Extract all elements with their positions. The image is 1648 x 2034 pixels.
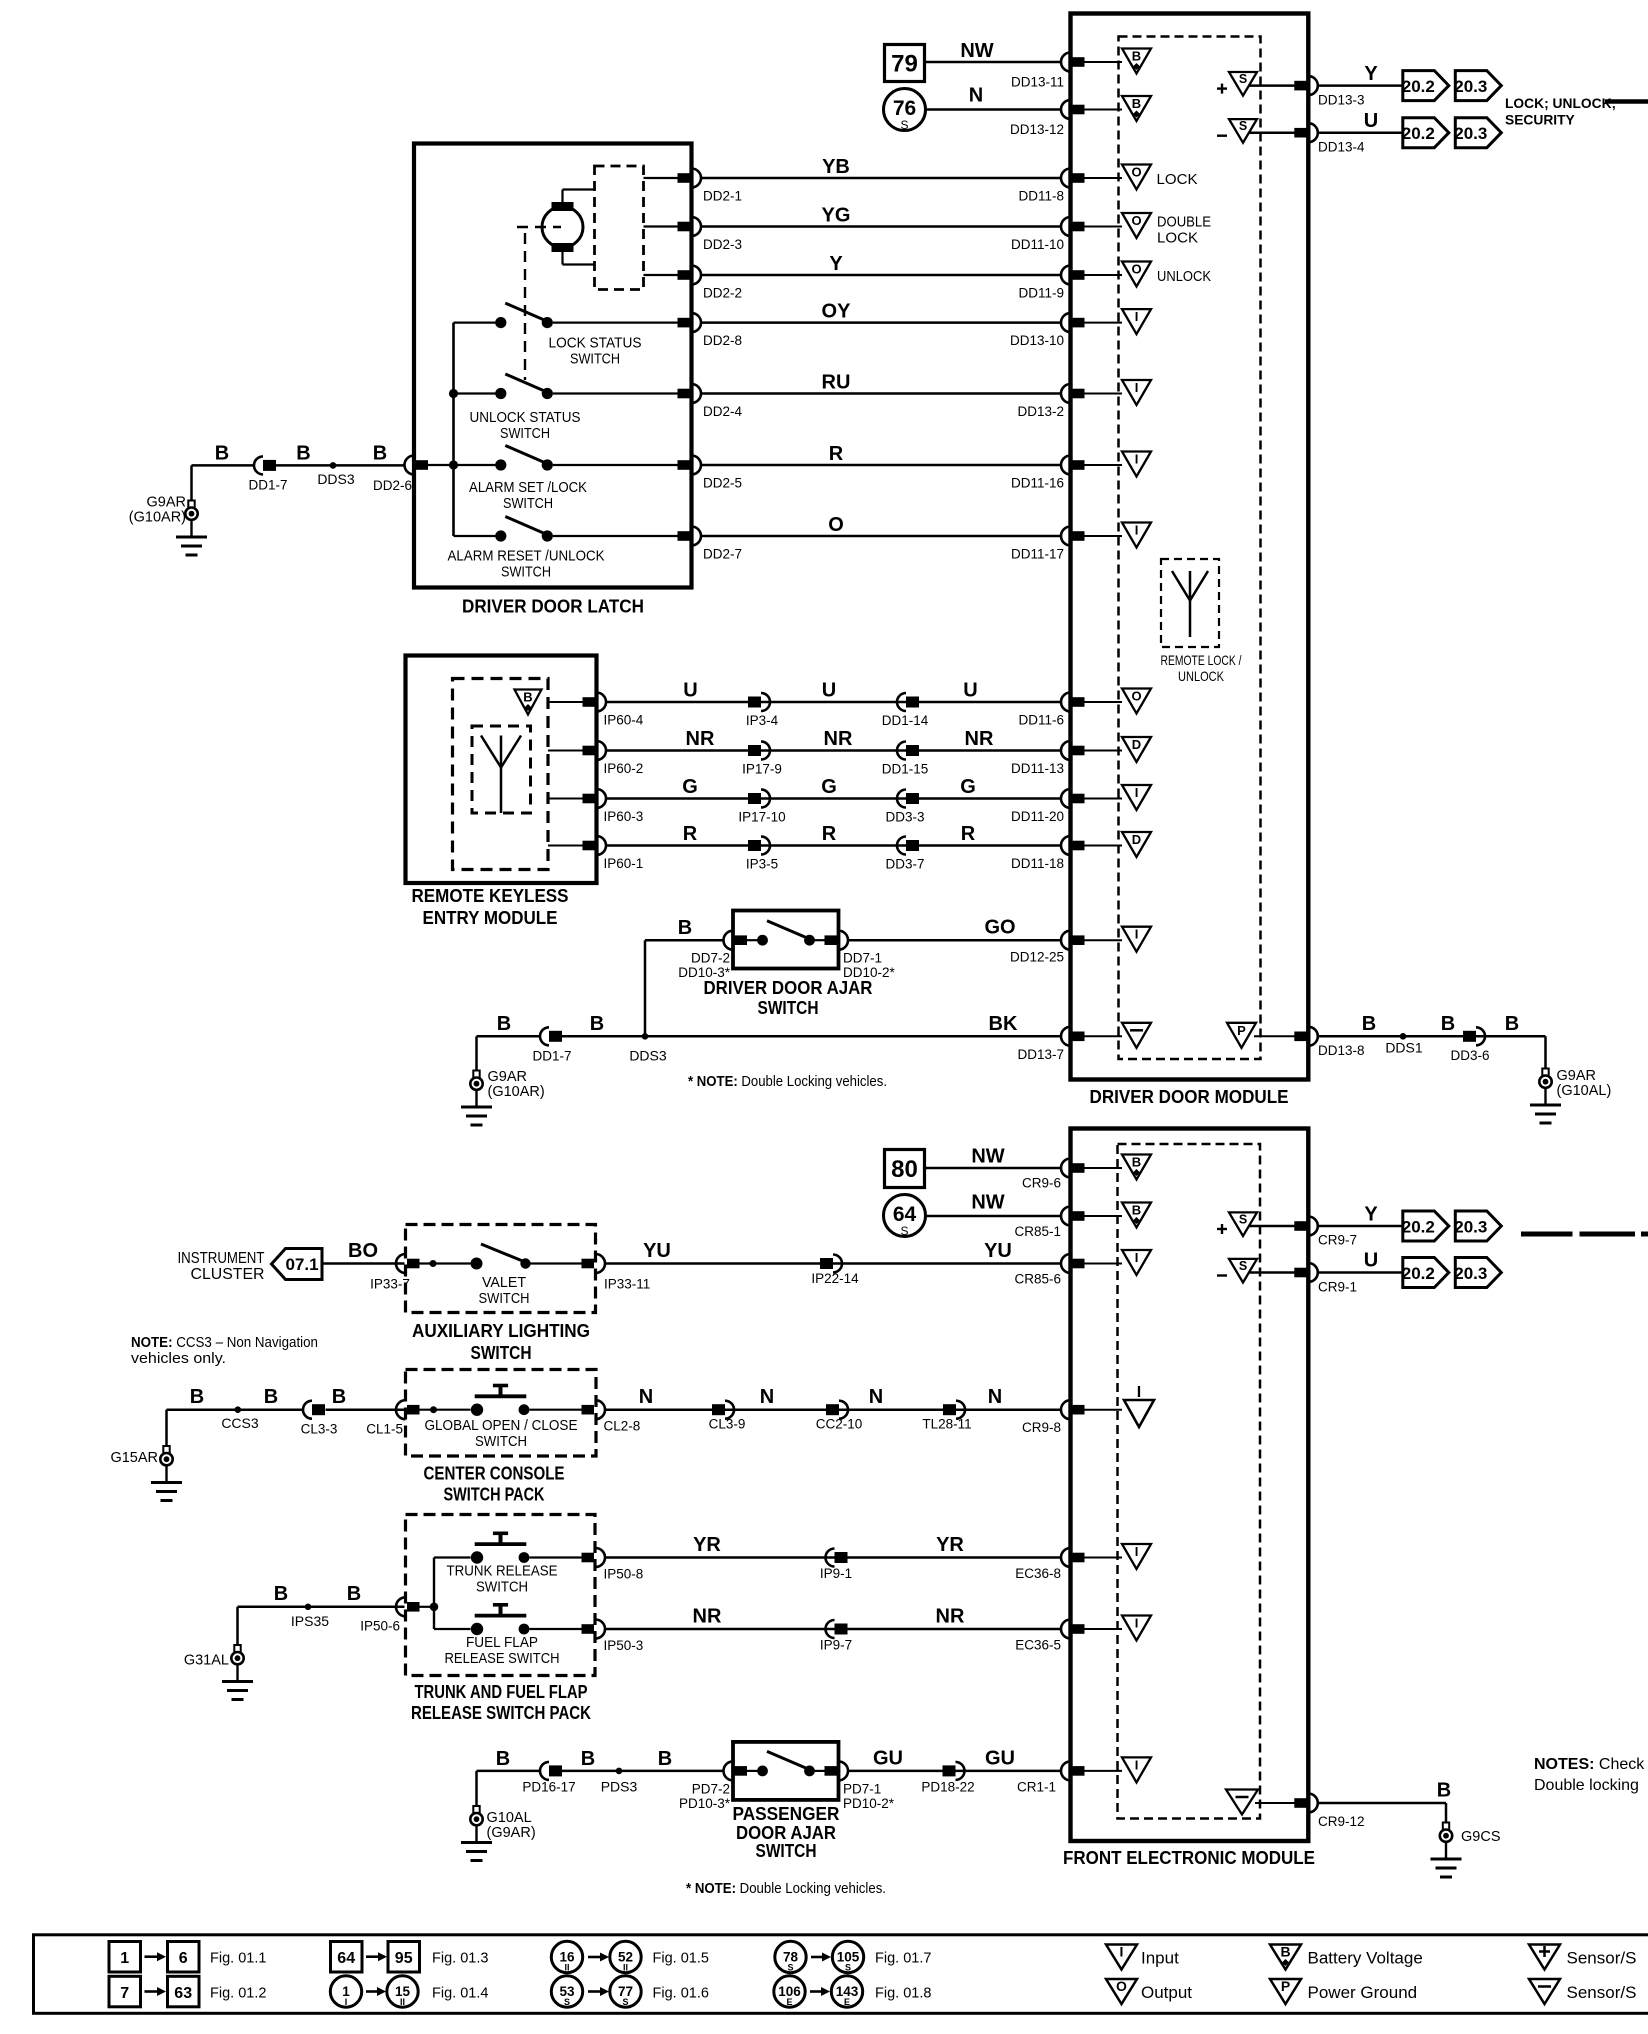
svg-text:B: B (1132, 96, 1141, 111)
svg-text:VALET: VALET (482, 1274, 526, 1291)
svg-text:DD13-12: DD13-12 (1010, 122, 1064, 137)
alarm set lock switch contacts (427, 464, 496, 466)
wire DD2-2 from linkage box (644, 274, 679, 276)
svg-text:PD10-3*: PD10-3* (679, 1796, 731, 1811)
wire YU from valet switch to CR85-6 (606, 1262, 1062, 1265)
svg-text:I: I (345, 1997, 348, 2007)
svg-text:SWITCH: SWITCH (756, 1841, 817, 1861)
wire down to ground G31AL (236, 1607, 239, 1646)
latch feed connector DD2-6 on latch left edge (405, 456, 415, 475)
svg-text:20.2: 20.2 (1402, 1218, 1435, 1237)
source arrow 07.1 instrument cluster (272, 1249, 323, 1280)
svg-text:S: S (622, 1997, 628, 2007)
power feed square 80 (885, 1150, 925, 1188)
svg-text:DD11-9: DD11-9 (1018, 286, 1064, 301)
sensor supply - triangle DD13-4 (1229, 119, 1257, 143)
svg-text:INSTRUMENT: INSTRUMENT (178, 1250, 265, 1267)
wire NW from 64 to CR85-1 (926, 1215, 1062, 1218)
ajar switch contacts (746, 939, 758, 941)
battery voltage triangle inside REM (515, 690, 542, 715)
svg-text:CENTER CONSOLE: CENTER CONSOLE (424, 1463, 565, 1484)
svg-text:20.2: 20.2 (1402, 124, 1435, 143)
dashed internal boundary of REM module (453, 679, 549, 870)
battery voltage triangle at CR9-6 (1122, 1155, 1151, 1180)
triangle O at DD11-6 (1122, 689, 1151, 714)
alarm reset unlock switch contacts (454, 535, 496, 537)
svg-text:SWITCH: SWITCH (570, 351, 620, 368)
svg-text:IP50-3: IP50-3 (604, 1638, 644, 1653)
antenna symbol remote lock unlock (1189, 571, 1192, 637)
svg-text:CR9-8: CR9-8 (1022, 1420, 1061, 1435)
wire down to ground G10AL (475, 1771, 478, 1807)
svg-text:S: S (900, 118, 908, 132)
wire B from DD13-8 to ground G9AR G10AL (1318, 1035, 1546, 1038)
svg-text:DD2-5: DD2-5 (703, 476, 742, 491)
battery voltage triangle at DD13-12 (1122, 96, 1151, 121)
svg-text:UNLOCK STATUS: UNLOCK STATUS (470, 409, 581, 426)
svg-text:7: 7 (120, 1985, 129, 2002)
svg-text:IP22-14: IP22-14 (811, 1271, 859, 1286)
svg-text:76: 76 (893, 97, 916, 120)
wire motor top brush to linkage box (561, 190, 563, 203)
wire NW from 80 to CR9-6 (925, 1167, 1062, 1170)
svg-text:Fig. 01.6: Fig. 01.6 (653, 1985, 709, 2001)
in-line connector CL3-3 (303, 1401, 312, 1419)
svg-text:95: 95 (395, 1950, 413, 1967)
svg-text:DD11-16: DD11-16 (1011, 476, 1064, 491)
remote lock unlock antenna dashed box inside module (1161, 559, 1219, 647)
svg-text:Fig. 01.7: Fig. 01.7 (875, 1951, 931, 1967)
input triangle at CR1-1 (1122, 1757, 1151, 1782)
legend circles 78 to 105 Fig 01.7 (775, 1941, 806, 1972)
power ground triangle P at DD13-8 (1227, 1023, 1256, 1048)
svg-text:N: N (969, 85, 983, 107)
legend squares 1 to 6 Fig 01.1 (109, 1942, 141, 1973)
in-line connector DD1-7 top (254, 456, 263, 474)
svg-text:IP60-2: IP60-2 (604, 761, 644, 776)
svg-text:PASSENGER: PASSENGER (733, 1804, 840, 1824)
wire NW from 79 to DD13-11 (925, 61, 1062, 64)
in-line connector DD3-6 (1463, 1031, 1476, 1042)
in-line connector IP9-7 (826, 1620, 835, 1638)
svg-text:I: I (1135, 309, 1139, 324)
svg-text:IP50-8: IP50-8 (604, 1567, 644, 1582)
svg-text:SWITCH: SWITCH (479, 1290, 530, 1307)
dashed box Trunk and Fuel Flap Release Switch Pack (406, 1515, 596, 1676)
svg-text:SWITCH: SWITCH (501, 564, 551, 581)
wire YG from latch DD2-3 to module DD11-10 (701, 225, 1062, 228)
svg-text:NOTE: CCS3 – Non Navigation: NOTE: CCS3 – Non Navigation (131, 1335, 318, 1351)
svg-text:B: B (1362, 1013, 1376, 1035)
svg-text:IPS35: IPS35 (291, 1613, 329, 1629)
svg-text:Y: Y (829, 253, 843, 275)
svg-text:B: B (347, 1583, 361, 1605)
svg-text:FRONT ELECTRONIC MODULE: FRONT ELECTRONIC MODULE (1063, 1847, 1315, 1868)
svg-text:TL28-11: TL28-11 (922, 1417, 971, 1432)
lock status switch contacts (454, 322, 496, 324)
wire motor bottom brush to linkage box (561, 252, 563, 265)
wire YB from latch DD2-1 to module DD11-8 (701, 177, 1062, 180)
legend battery voltage triangle (1270, 1945, 1301, 1970)
motor linkage dashed box (595, 166, 644, 290)
svg-text:Power Ground: Power Ground (1308, 1983, 1418, 2002)
svg-text:Fig. 01.2: Fig. 01.2 (210, 1985, 266, 2001)
svg-text:NR: NR (686, 728, 715, 750)
svg-text:DD11-6: DD11-6 (1018, 713, 1064, 728)
svg-text:07.1: 07.1 (285, 1255, 318, 1274)
svg-text:B: B (496, 1748, 510, 1770)
svg-text:DDS3: DDS3 (629, 1048, 667, 1064)
svg-text:YU: YU (984, 1240, 1012, 1262)
svg-text:S: S (845, 1963, 851, 1973)
svg-text:64: 64 (893, 1203, 917, 1226)
svg-text:B: B (332, 1386, 346, 1408)
in-line connector PD16-17 (540, 1762, 549, 1780)
destination arrow 20.2 row CR9-7 (1403, 1211, 1449, 1241)
svg-text:U: U (1364, 1250, 1378, 1272)
svg-text:DOUBLE: DOUBLE (1157, 214, 1211, 231)
input triangle at DD13-10 (1122, 309, 1151, 334)
svg-text:B: B (1132, 1155, 1141, 1170)
in-line connector PD18-22 (943, 1765, 956, 1776)
svg-text:20.3: 20.3 (1454, 124, 1487, 143)
wire B into ajar switch (645, 939, 724, 942)
wire into battery symbol DD13-11 (1084, 61, 1122, 63)
legend squares 7 to 63 Fig 01.2 (109, 1976, 141, 2007)
legend output triangle (1106, 1979, 1137, 2004)
svg-text:G31AL: G31AL (184, 1653, 229, 1669)
input triangle at DD12-25 (1122, 927, 1151, 952)
wire R from REM to driver door module (606, 844, 1062, 847)
input triangle at DD11-17 (1122, 523, 1151, 548)
wire Y from sensor + to CR9-7 (1249, 1225, 1296, 1228)
svg-text:N: N (869, 1386, 883, 1408)
svg-text:(G10AL): (G10AL) (1557, 1083, 1612, 1099)
legend sensor supply plus triangle (1529, 1945, 1560, 1970)
svg-text:DD7-2: DD7-2 (691, 951, 730, 966)
svg-text:CCS3: CCS3 (221, 1415, 259, 1431)
svg-text:IP9-1: IP9-1 (820, 1566, 852, 1581)
svg-text:PD7-2: PD7-2 (692, 1782, 730, 1797)
legend box (34, 1935, 1648, 2014)
wire inside REM to pin IP60-3 (548, 798, 584, 800)
wire down from ajar switch feed to splice DDS3 (644, 940, 647, 1036)
battery voltage triangle at DD13-11 (1122, 49, 1151, 74)
svg-text:20.2: 20.2 (1402, 1264, 1435, 1283)
wire down to ground G9AR G10AL (1544, 1036, 1547, 1069)
splice PDS3 (616, 1768, 623, 1775)
triangle I at DD11-20 (1122, 785, 1151, 810)
continuation dashed line CR9-7 row (1521, 1232, 1573, 1237)
svg-text:20.3: 20.3 (1454, 77, 1487, 96)
svg-text:NR: NR (693, 1606, 722, 1628)
svg-text:B: B (590, 1013, 604, 1035)
ground G9AR (G10AR) lower left (473, 1071, 479, 1078)
svg-text:Fig. 01.3: Fig. 01.3 (432, 1951, 488, 1967)
svg-text:CLUSTER: CLUSTER (191, 1266, 265, 1283)
svg-text:DD7-1: DD7-1 (843, 951, 882, 966)
svg-text:1: 1 (120, 1950, 129, 1967)
svg-text:CL2-8: CL2-8 (604, 1419, 641, 1434)
wire O from latch DD2-7 to module DD11-17 (701, 535, 1062, 538)
svg-text:G9AR: G9AR (1557, 1068, 1597, 1084)
antenna dashed box inside REM (472, 726, 531, 813)
svg-text:S: S (1239, 1259, 1247, 1273)
svg-text:G: G (821, 776, 837, 798)
svg-text:DD11-20: DD11-20 (1011, 809, 1064, 824)
svg-text:REMOTE KEYLESS: REMOTE KEYLESS (412, 885, 569, 906)
wire B from G31AL to IP50-6 (238, 1606, 405, 1609)
svg-text:Y: Y (1364, 63, 1378, 85)
dashed internal boundary of Driver Door Module (1119, 37, 1261, 1060)
svg-text:S: S (1239, 119, 1247, 133)
svg-text:B: B (190, 1386, 204, 1408)
svg-text:O: O (1131, 213, 1141, 228)
component box Driver Door Ajar Switch (733, 911, 839, 969)
wire down to ground G9AR G10AR left (190, 465, 193, 501)
svg-text:(G10AR): (G10AR) (488, 1084, 545, 1100)
legend circles 16 to 52 Fig 01.5 (551, 1941, 582, 1972)
svg-text:(G10AR): (G10AR) (129, 510, 186, 526)
splice DDS3 lower (642, 1033, 649, 1040)
svg-text:O: O (1131, 165, 1141, 180)
module box Driver Door Module U2 (1071, 14, 1309, 1080)
svg-text:I: I (1135, 785, 1139, 800)
svg-text:DD13-7: DD13-7 (1017, 1047, 1064, 1062)
svg-text:DD2-2: DD2-2 (703, 286, 742, 301)
wire DD2-3 from linkage box (644, 225, 679, 227)
svg-text:U: U (1364, 110, 1378, 132)
svg-text:B: B (1437, 1780, 1451, 1802)
internal feed junction trunk fuel (418, 1606, 434, 1608)
in-line connector DD1-15 (897, 742, 906, 760)
valet switch contacts (418, 1262, 471, 1264)
lock motor M1 in latch (542, 207, 583, 248)
continuation line lock unlock security (1605, 99, 1648, 104)
svg-text:I: I (1135, 927, 1139, 942)
wire inside REM to pin IP60-2 (548, 750, 584, 752)
sensor supply - triangle CR9-1 (1229, 1259, 1257, 1283)
svg-text:DD1-7: DD1-7 (248, 478, 287, 493)
svg-text:S: S (1239, 1212, 1247, 1226)
svg-text:NW: NW (960, 40, 993, 62)
svg-text:SWITCH: SWITCH (471, 1342, 532, 1363)
svg-text:B: B (215, 443, 229, 465)
wire RU from latch DD2-4 to module DD13-2 (701, 392, 1062, 395)
svg-text:Double locking: Double locking (1534, 1777, 1639, 1794)
svg-text:DOOR AJAR: DOOR AJAR (736, 1823, 836, 1843)
svg-text:E: E (844, 1997, 850, 2007)
svg-text:G10AL: G10AL (487, 1810, 532, 1826)
wire U from REM to driver door module (606, 701, 1062, 704)
dashed box Center Console Switch Pack (406, 1370, 597, 1457)
svg-text:20.2: 20.2 (1402, 77, 1435, 96)
output triangle LOCK at DD11-8 (1122, 165, 1151, 190)
module box Remote Keyless Entry Module (406, 656, 597, 884)
in-line connector IP17-10 (748, 793, 761, 804)
svg-text:vehicles only.: vehicles only. (131, 1351, 226, 1367)
input triangle at CR85-6 (1122, 1250, 1151, 1275)
svg-text:IP33-7: IP33-7 (370, 1277, 410, 1292)
svg-text:SWITCH: SWITCH (758, 998, 819, 1018)
power feed circle 76 S (884, 89, 926, 131)
wire inside REM to pin IP60-4 (548, 701, 584, 703)
svg-text:NR: NR (965, 728, 994, 750)
wire YR from IP50-8 to EC36-8 (605, 1556, 1062, 1559)
global open close switch contacts (418, 1409, 471, 1411)
svg-text:CL3-9: CL3-9 (709, 1417, 746, 1432)
svg-text:B: B (1280, 1944, 1290, 1960)
svg-text:DD11-17: DD11-17 (1011, 547, 1064, 562)
svg-text:Battery Voltage: Battery Voltage (1308, 1949, 1423, 1968)
svg-text:DD1-15: DD1-15 (882, 762, 929, 777)
svg-text:N: N (988, 1386, 1002, 1408)
svg-text:DRIVER DOOR AJAR: DRIVER DOOR AJAR (704, 978, 873, 998)
svg-text:(G9AR): (G9AR) (487, 1825, 536, 1841)
svg-text:AUXILIARY LIGHTING: AUXILIARY LIGHTING (412, 1320, 590, 1341)
svg-text:PD10-2*: PD10-2* (843, 1796, 895, 1811)
svg-text:DD2-1: DD2-1 (703, 189, 742, 204)
svg-text:Sensor/S: Sensor/S (1567, 1949, 1637, 1968)
svg-text:SWITCH: SWITCH (475, 1433, 527, 1450)
svg-text:20.3: 20.3 (1454, 1218, 1487, 1237)
module box Front Electronic Module (1071, 1129, 1309, 1842)
svg-text:B: B (658, 1748, 672, 1770)
svg-text:B: B (581, 1748, 595, 1770)
svg-text:O: O (1131, 689, 1141, 704)
svg-text:79: 79 (891, 51, 918, 78)
svg-text:R: R (829, 443, 844, 465)
svg-text:B: B (264, 1386, 278, 1408)
legend squares 64 to 95 Fig 01.3 (331, 1942, 363, 1973)
mechanical link dashed line from motor (517, 226, 561, 228)
svg-text:LOCK; UNLOCK;: LOCK; UNLOCK; (1505, 96, 1616, 111)
svg-text:G15AR: G15AR (110, 1450, 158, 1466)
svg-text:DRIVER DOOR MODULE: DRIVER DOOR MODULE (1090, 1086, 1289, 1107)
legend sensor supply minus triangle (1529, 1979, 1560, 2004)
wire GU from passenger ajar switch to CR1-1 (849, 1770, 1062, 1773)
svg-text:I: I (1135, 1544, 1139, 1559)
ground G10AL (G9AR) (473, 1806, 479, 1813)
wire down to ground G15AR (165, 1410, 168, 1447)
svg-text:I: I (1135, 523, 1139, 538)
component box Passenger Door Ajar Switch (733, 1742, 839, 1800)
in-line connector IP9-1 (826, 1549, 835, 1567)
svg-text:II: II (400, 1997, 405, 2007)
svg-text:YG: YG (822, 205, 851, 227)
wire BO from 07.1 to IP33-7 (322, 1262, 405, 1265)
wire GO from ajar switch to DD12-25 (849, 939, 1062, 942)
svg-text:I: I (1137, 1384, 1141, 1401)
svg-text:R: R (683, 823, 698, 845)
input triangle at DD13-2 (1122, 380, 1151, 405)
sensor supply + triangle DD13-3 (1229, 72, 1257, 96)
svg-text:B: B (373, 443, 387, 465)
in-line connector IP17-9 (748, 745, 761, 756)
svg-text:RELEASE SWITCH PACK: RELEASE SWITCH PACK (411, 1702, 592, 1723)
in-line connector IP22-14 (820, 1258, 833, 1269)
svg-text:D: D (1132, 737, 1141, 752)
in-line connector IP3-4 (748, 697, 761, 708)
svg-text:PD16-17: PD16-17 (522, 1780, 575, 1795)
svg-text:Output: Output (1141, 1983, 1192, 2002)
svg-text:LOCK: LOCK (1157, 230, 1198, 247)
svg-text:GU: GU (873, 1748, 903, 1770)
svg-text:* NOTE: Double Locking vehicle: * NOTE: Double Locking vehicles. (688, 1074, 887, 1090)
svg-text:O: O (1116, 1978, 1127, 1994)
passenger ajar switch contacts (746, 1770, 758, 1772)
svg-text:Y: Y (1364, 1204, 1378, 1226)
destination arrow 20.3 row CR9-1 (1455, 1258, 1501, 1288)
svg-text:B: B (296, 443, 310, 465)
svg-text:RU: RU (822, 372, 851, 394)
splice DDS3 top (330, 462, 337, 469)
svg-text:S: S (1239, 72, 1247, 86)
output triangle DOUBLE LOCK at DD11-10 (1122, 213, 1151, 238)
destination arrow 20.2 row DD13-3 (1403, 71, 1449, 101)
svg-text:U: U (683, 680, 697, 702)
svg-text:UNLOCK: UNLOCK (1157, 268, 1211, 285)
svg-text:DD11-18: DD11-18 (1011, 856, 1064, 871)
svg-text:Sensor/S: Sensor/S (1567, 1983, 1637, 2002)
in-line connector DD3-7 (897, 837, 906, 855)
dashed box Auxiliary Lighting Switch (406, 1225, 596, 1313)
legend circles 106 to 143 Fig 01.8 (774, 1976, 805, 2007)
power feed square 79 (885, 45, 925, 82)
wire B BK ground run to DD13-7 (477, 1035, 541, 1038)
svg-text:B: B (523, 690, 532, 705)
svg-text:S: S (564, 1997, 570, 2007)
svg-text:G9AR: G9AR (147, 495, 187, 511)
destination arrow 20.3 row DD13-4 (1455, 118, 1501, 148)
in-line connector DD3-3 (897, 790, 906, 808)
svg-text:I: I (1135, 452, 1139, 467)
legend circles 1 to 15 Fig 01.4 (330, 1976, 361, 2007)
svg-text:DD2-6: DD2-6 (373, 478, 412, 493)
svg-text:DD11-8: DD11-8 (1018, 189, 1064, 204)
wire Y from sensor + to DD13-3 (1249, 84, 1296, 87)
svg-text:YR: YR (693, 1534, 721, 1556)
svg-text:DD13-8: DD13-8 (1318, 1043, 1365, 1058)
svg-text:SWITCH: SWITCH (500, 425, 550, 442)
svg-text:DD3-3: DD3-3 (885, 810, 924, 825)
svg-text:DD2-7: DD2-7 (703, 547, 742, 562)
svg-text:NW: NW (971, 1146, 1004, 1168)
svg-text:N: N (639, 1386, 653, 1408)
unlock status switch contacts (454, 392, 496, 394)
in-line connector DD1-7 lower (540, 1027, 549, 1045)
svg-text:DD13-3: DD13-3 (1318, 93, 1365, 108)
latch internal bus from DD2-6 (452, 323, 455, 536)
svg-text:Input: Input (1141, 1949, 1179, 1968)
svg-text:G: G (682, 776, 698, 798)
wire U from sensor - to CR9-1 (1249, 1271, 1296, 1274)
wire Y from latch DD2-2 to module DD11-9 (701, 274, 1062, 277)
svg-text:TRUNK RELEASE: TRUNK RELEASE (447, 1563, 558, 1580)
svg-text:II: II (564, 1963, 569, 1973)
svg-text:O: O (828, 514, 844, 536)
svg-text:NOTES: Check: NOTES: Check (1534, 1756, 1645, 1773)
splice IPS35 (305, 1604, 312, 1611)
svg-text:G9CS: G9CS (1461, 1829, 1501, 1845)
svg-text:GO: GO (984, 917, 1015, 939)
svg-text:G: G (960, 776, 976, 798)
svg-text:PDS3: PDS3 (601, 1779, 638, 1795)
svg-text:NR: NR (936, 1606, 965, 1628)
svg-text:20.3: 20.3 (1454, 1264, 1487, 1283)
wire down to ground G9AR G10AR lower (475, 1036, 478, 1071)
triangle D at DD11-18 (1122, 832, 1151, 857)
